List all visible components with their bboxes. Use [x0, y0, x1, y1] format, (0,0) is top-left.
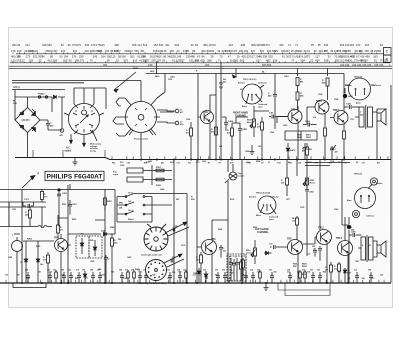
svg-text:230: 230 [148, 63, 153, 67]
tape socket symbol [225, 164, 245, 183]
switch S1a [117, 193, 152, 198]
svg-text:165: 165 [373, 54, 378, 58]
svg-text:294: 294 [101, 54, 106, 58]
mid bus labels [120, 162, 359, 164]
wire right lower horizontals [305, 160, 350, 166]
wire C450 bottom [48, 97, 62, 130]
wire left verticals [22, 184, 115, 283]
diode D452 [54, 95, 57, 99]
svg-text:152: 152 [153, 43, 158, 47]
diode D242 [36, 241, 44, 283]
table tick marks [13, 52, 377, 62]
svg-text:273: 273 [26, 54, 31, 58]
svg-text:S2: S2 [240, 89, 242, 91]
svg-text:150: 150 [348, 58, 353, 62]
svg-text:C586: C586 [334, 99, 338, 101]
svg-text:S7: S7 [261, 162, 263, 164]
svg-text:89: 89 [192, 49, 195, 53]
trimmer C58 [173, 226, 177, 232]
svg-text:517: 517 [250, 54, 255, 58]
wire prong pointer [92, 130, 97, 141]
resistor R487 [302, 143, 309, 160]
svg-text:R7: R7 [219, 162, 221, 164]
svg-text:552: 552 [268, 54, 273, 58]
resistor R485 [296, 86, 304, 111]
svg-text:D348: D348 [110, 226, 114, 229]
resistor R502 [299, 270, 307, 283]
svg-text:343,344: 343,344 [352, 63, 362, 67]
label wavechange switch [138, 282, 166, 285]
svg-text:R27: R27 [377, 162, 380, 164]
svg-text:S10: S10 [230, 162, 233, 164]
resistor R476 [257, 117, 264, 160]
svg-text:Emitter: Emitter [249, 196, 256, 199]
mid bus extra labels [112, 162, 380, 164]
svg-text:35: 35 [311, 43, 314, 47]
svg-text:Base: Base [242, 106, 248, 108]
svg-text:Collector: Collector [366, 214, 374, 217]
svg-text:R532: R532 [72, 219, 76, 221]
svg-text:345,346: 345,346 [362, 63, 372, 67]
svg-text:513: 513 [143, 43, 148, 47]
transistor TR13 [315, 100, 329, 114]
svg-text:C513: C513 [258, 146, 262, 148]
svg-text:C313: C313 [350, 119, 354, 121]
svg-text:C10: C10 [292, 220, 295, 222]
svg-text:R37: R37 [102, 275, 105, 277]
svg-text:501: 501 [260, 49, 265, 53]
svg-text:43: 43 [197, 54, 200, 58]
svg-text:576: 576 [72, 54, 77, 58]
capacitor C459 [303, 143, 313, 160]
pot R501 volume [246, 240, 257, 264]
wire socket2 bottom stubs [129, 130, 153, 135]
svg-text:C28: C28 [298, 162, 301, 164]
svg-text:127: 127 [20, 58, 25, 62]
thermistor R452 [60, 129, 64, 137]
svg-text:115: 115 [111, 54, 116, 58]
svg-text:312: 312 [223, 251, 226, 253]
svg-text:MR453: MR453 [22, 119, 31, 122]
svg-text:560: 560 [122, 54, 127, 58]
svg-text:mains: mains [65, 150, 72, 152]
capacitor C17 [313, 248, 317, 257]
diode D243 [80, 238, 84, 254]
svg-text:C24: C24 [380, 274, 383, 277]
svg-text:R265: R265 [27, 238, 33, 240]
transistor TR14 [333, 109, 348, 125]
svg-text:R106: R106 [230, 199, 234, 201]
label wavelength switch [141, 253, 162, 256]
svg-text:R52: R52 [293, 266, 296, 268]
svg-text:C51: C51 [269, 269, 272, 271]
svg-text:C506: C506 [90, 261, 94, 263]
svg-text:150: 150 [364, 49, 369, 53]
pinout diagram TR1-3-5-9-11 [238, 79, 268, 108]
svg-text:C99: C99 [222, 269, 225, 271]
svg-text:R78: R78 [338, 272, 341, 274]
label power socket [134, 138, 148, 141]
svg-text:76: 76 [90, 58, 93, 62]
svg-text:71: 71 [218, 58, 221, 62]
svg-text:50: 50 [378, 49, 381, 53]
svg-text:Morse: Morse [310, 182, 316, 184]
labels MW LW [119, 203, 135, 221]
svg-text:86: 86 [163, 54, 166, 58]
svg-text:C562: C562 [283, 125, 287, 127]
svg-text:C33: C33 [193, 275, 196, 277]
svg-text:C30: C30 [289, 162, 292, 164]
svg-text:C43: C43 [82, 268, 85, 271]
svg-text:C393: C393 [120, 165, 124, 167]
label HT+ [14, 86, 20, 89]
svg-text:398: 398 [241, 43, 246, 47]
svg-text:19: 19 [217, 49, 220, 53]
svg-text:413: 413 [195, 58, 200, 62]
svg-text:C99: C99 [61, 275, 64, 277]
svg-text:C520: C520 [270, 132, 274, 134]
svg-text:39: 39 [17, 43, 20, 47]
wavechange switch disc [146, 260, 167, 281]
svg-text:C85: C85 [61, 269, 64, 271]
svg-text:C61: C61 [310, 269, 313, 271]
svg-text:R95: R95 [139, 272, 142, 274]
svg-text:32: 32 [116, 58, 119, 62]
svg-text:33: 33 [380, 43, 383, 47]
capacitor C425 top [344, 102, 359, 109]
svg-text:C72: C72 [215, 269, 218, 271]
resistor R503 [292, 216, 299, 240]
svg-text:R20: R20 [248, 162, 251, 164]
table right legend boxes [352, 48, 392, 67]
svg-text:C488: C488 [245, 150, 249, 153]
svg-text:R77: R77 [85, 278, 88, 280]
svg-text:C81: C81 [243, 269, 246, 271]
svg-text:512: 512 [334, 268, 337, 270]
wire mid bus left [15, 157, 105, 159]
svg-text:503,504: 503,504 [262, 63, 272, 67]
svg-text:C48: C48 [241, 274, 244, 277]
svg-text:C20: C20 [127, 162, 130, 164]
wire mid joins [232, 106, 277, 123]
svg-text:C53: C53 [5, 275, 8, 277]
transistor TR8 [201, 111, 214, 124]
svg-text:76: 76 [348, 49, 351, 53]
svg-text:D384: D384 [218, 228, 222, 231]
diode D20 [264, 251, 272, 255]
svg-text:L15: L15 [307, 253, 310, 255]
resistor R486 [322, 78, 329, 100]
label R265 [27, 238, 33, 240]
scattered value labels [8, 75, 359, 274]
svg-text:C251: C251 [72, 204, 77, 206]
svg-text:536: 536 [273, 58, 278, 62]
svg-text:R270: R270 [133, 68, 139, 70]
wire right border [377, 85, 391, 283]
svg-text:C54: C54 [273, 271, 276, 274]
svg-text:Emitter: Emitter [376, 182, 383, 185]
bridge rectifier MR453 [15, 108, 40, 133]
svg-text:37: 37 [374, 58, 377, 62]
svg-text:530: 530 [159, 43, 164, 47]
svg-text:282: 282 [143, 58, 148, 62]
mains plug selector socket [64, 100, 104, 138]
svg-text:194: 194 [64, 54, 69, 58]
resistor R489 [324, 128, 327, 136]
svg-text:538: 538 [324, 58, 329, 62]
svg-text:C438: C438 [160, 188, 164, 191]
wire rectifier connections [15, 90, 48, 158]
resistor R249 [25, 207, 32, 227]
resistor R474 [227, 123, 234, 160]
A.C. mains arrows [70, 134, 86, 147]
power socket circle [120, 97, 160, 157]
arrow pointer P [22, 173, 40, 189]
svg-text:72: 72 [38, 58, 41, 62]
resistor R491 [343, 131, 346, 139]
svg-text:C514: C514 [186, 118, 190, 121]
transistor TR14 [336, 237, 353, 256]
svg-text:C1B: C1B [269, 113, 274, 115]
pick-up input label [113, 172, 118, 177]
wire vertical x216 [215, 74, 217, 160]
svg-text:107: 107 [256, 58, 261, 62]
svg-text:C64: C64 [368, 268, 371, 271]
paper noise texture [9, 28, 393, 308]
speaker bottom-right [373, 241, 386, 257]
bottom bus extra labels [5, 271, 383, 281]
svg-text:597: 597 [97, 49, 102, 53]
svg-text:23: 23 [213, 43, 216, 47]
svg-text:363: 363 [349, 43, 354, 47]
svg-text:412,559: 412,559 [48, 58, 58, 62]
svg-text:C22: C22 [302, 269, 305, 271]
switch frame [117, 194, 187, 223]
svg-text:C46: C46 [119, 268, 122, 271]
svg-text:84: 84 [202, 54, 205, 58]
wire left horizontals [0, 190, 115, 227]
wire TR2 leads [275, 100, 298, 160]
svg-text:77: 77 [291, 58, 294, 62]
wire top rail drops [275, 68, 344, 91]
diode D241 [21, 241, 28, 283]
svg-text:C28: C28 [307, 272, 310, 274]
svg-text:34: 34 [42, 54, 45, 58]
svg-text:273: 273 [356, 43, 361, 47]
svg-text:C19: C19 [269, 243, 272, 245]
svg-text:C88: C88 [26, 278, 29, 280]
svg-text:197: 197 [53, 49, 58, 53]
tone network dashed box [227, 254, 246, 281]
svg-text:C425: C425 [351, 230, 356, 233]
svg-text:498: 498 [114, 43, 119, 47]
svg-text:C514: C514 [202, 160, 206, 163]
trimmer C59 [171, 257, 175, 263]
transistor TR6 [202, 238, 217, 255]
wire TR13 TR14 couple [307, 78, 344, 160]
wire long top rail [146, 73, 344, 75]
capacitor C19 [269, 243, 280, 249]
coil L452 [343, 88, 354, 98]
svg-text:R19: R19 [315, 162, 318, 164]
svg-text:C11: C11 [176, 162, 179, 164]
svg-text:65: 65 [365, 58, 368, 62]
svg-text:60: 60 [61, 43, 64, 47]
svg-text:504: 504 [175, 43, 180, 47]
svg-text:Power socket: Power socket [134, 138, 148, 141]
svg-text:47: 47 [228, 54, 231, 58]
svg-text:C267: C267 [355, 261, 359, 263]
svg-text:Collector: Collector [270, 196, 279, 199]
svg-text:50x: 50x [231, 272, 234, 274]
svg-text:TR(1,3,5,6,8,9): TR(1,3,5,6,8,9) [256, 192, 270, 194]
coil L454 [347, 217, 355, 283]
svg-text:R439: R439 [155, 75, 159, 78]
svg-text:C98: C98 [25, 269, 28, 271]
svg-text:318: 318 [281, 182, 284, 184]
svg-text:C360: C360 [334, 209, 338, 211]
svg-text:139: 139 [244, 49, 249, 53]
capacitor C423 [303, 120, 317, 127]
svg-text:C83: C83 [90, 269, 93, 271]
svg-text:206: 206 [63, 58, 68, 62]
svg-text:482: 482 [266, 58, 271, 62]
svg-text:C351: C351 [12, 209, 16, 211]
svg-text:R10: R10 [144, 162, 147, 164]
svg-text:PHILIPS F6G40AT: PHILIPS F6G40AT [47, 174, 103, 181]
wavelength switch disc [144, 224, 168, 251]
svg-text:C152: C152 [168, 79, 172, 81]
capacitor C450b [305, 185, 314, 202]
svg-text:TR(1,3,5,9,11): TR(1,3,5,9,11) [243, 79, 257, 81]
svg-text:527: 527 [251, 49, 256, 53]
svg-text:595: 595 [210, 49, 215, 53]
svg-text:C48: C48 [361, 277, 364, 280]
wire TR6 leads [197, 220, 228, 283]
capacitor C450 [46, 120, 54, 130]
svg-text:69: 69 [195, 43, 198, 47]
svg-text:371: 371 [265, 43, 270, 47]
svg-text:C334: C334 [330, 160, 334, 163]
mid bus tick legs [112, 156, 388, 159]
capacitor C453 [268, 91, 277, 101]
svg-text:C1: C1 [344, 162, 346, 164]
wire socket2 top feed [141, 74, 165, 99]
svg-text:466: 466 [324, 43, 329, 47]
svg-text:L453: L453 [150, 70, 154, 73]
svg-text:R45: R45 [38, 271, 41, 274]
svg-text:176: 176 [77, 43, 82, 47]
capacitor C253 [57, 188, 68, 200]
svg-text:C435: C435 [127, 256, 131, 259]
svg-text:25: 25 [234, 49, 237, 53]
svg-text:35: 35 [69, 58, 72, 62]
svg-text:C70: C70 [167, 278, 170, 280]
svg-text:95: 95 [318, 43, 321, 47]
capacitor C320 [313, 246, 322, 261]
svg-text:C31: C31 [167, 269, 170, 271]
svg-text:331: 331 [298, 49, 303, 53]
resistor R279 [43, 252, 50, 283]
svg-text:415: 415 [133, 58, 138, 62]
svg-text:L16: L16 [313, 117, 316, 119]
page border frame [9, 28, 393, 308]
wire amp couplings [280, 237, 349, 283]
svg-text:262: 262 [130, 54, 135, 58]
capacitor C464 [222, 117, 234, 131]
svg-text:321: 321 [61, 49, 66, 53]
svg-text:72: 72 [307, 54, 310, 58]
svg-text:C77: C77 [371, 278, 374, 280]
svg-text:39: 39 [210, 54, 213, 58]
svg-text:259: 259 [79, 54, 84, 58]
svg-text:534: 534 [85, 43, 90, 47]
svg-text:303,441: 303,441 [340, 43, 350, 47]
svg-text:C338: C338 [318, 94, 322, 96]
svg-text:C91: C91 [183, 269, 186, 271]
svg-text:135: 135 [162, 49, 167, 53]
svg-text:C21: C21 [354, 269, 357, 271]
svg-text:R58: R58 [178, 272, 181, 274]
diode L243 [68, 229, 115, 235]
table reference numbers [11, 43, 388, 67]
svg-text:61: 61 [282, 54, 285, 58]
svg-text:C37: C37 [361, 162, 364, 164]
svg-text:429: 429 [273, 49, 278, 53]
component location table lines [9, 54, 393, 69]
label A.C. mains [65, 147, 72, 153]
svg-text:R47: R47 [152, 274, 155, 277]
svg-text:345,346: 345,346 [374, 63, 384, 67]
wire bus stubs [33, 150, 105, 158]
svg-text:D39: D39 [172, 272, 175, 274]
resistor network box [285, 131, 317, 140]
svg-text:451: 451 [103, 63, 108, 67]
label LEFT-HAND CHANNEL [255, 228, 269, 234]
coil L240 wavy [38, 225, 47, 228]
svg-text:43: 43 [307, 49, 310, 53]
svg-text:C60: C60 [317, 269, 320, 271]
svg-text:Base: Base [256, 215, 262, 217]
svg-text:238: 238 [263, 54, 268, 58]
svg-text:133: 133 [29, 58, 34, 62]
svg-text:30: 30 [328, 54, 331, 58]
wire x287 drop [286, 160, 288, 197]
pinout diagram TR lower [249, 192, 279, 220]
output transformer T454 [358, 235, 373, 262]
svg-text:327: 327 [180, 58, 185, 62]
svg-text:10m1: 10m1 [128, 193, 134, 195]
resistor R270 [41, 190, 49, 203]
labels R5xx row [293, 262, 307, 268]
svg-text:426: 426 [241, 54, 246, 58]
svg-text:307: 307 [285, 49, 290, 53]
wire pointer R270 [114, 68, 139, 92]
svg-text:92: 92 [359, 49, 362, 53]
svg-text:40: 40 [177, 49, 180, 53]
top rail labels [150, 70, 289, 91]
pot R505 morse [303, 178, 315, 186]
svg-text:socket: socket [238, 174, 245, 177]
svg-text:C452: C452 [170, 75, 175, 78]
svg-text:150: 150 [279, 43, 284, 47]
wire vertical x197 [196, 160, 198, 284]
switch S1b [117, 201, 152, 206]
svg-text:243: 243 [93, 54, 98, 58]
svg-text:4Ω: 4Ω [60, 134, 63, 137]
svg-text:HT(+): HT(+) [14, 86, 20, 89]
IF transformer T6 dashed box [76, 236, 102, 258]
